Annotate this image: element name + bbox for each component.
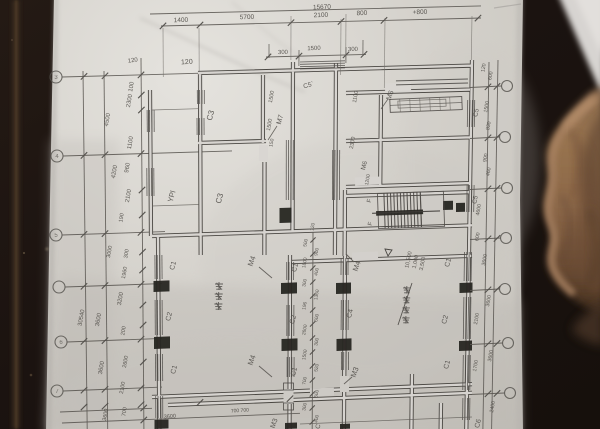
- window hatch right wall lower: [463, 252, 465, 281]
- paper sheet: [46, 0, 523, 429]
- axis row line right 1: [470, 86, 502, 88]
- paper top-right corner fold: [494, 4, 521, 8]
- axis row line left 5: [67, 338, 162, 342]
- paper soft shading lower-left & bottom: [46, 280, 521, 429]
- axis bubble right 5: [500, 284, 511, 295]
- axis row line right 3: [470, 188, 502, 190]
- window hatch right-mid wall: [340, 258, 342, 275]
- dim line top row B: [161, 18, 481, 26]
- door opening M6 mid: [355, 177, 381, 186]
- dim line top row A (15670 overall): [150, 6, 481, 14]
- window C5 right wall upper: [466, 100, 468, 127]
- svg-text:1500: 1500: [307, 46, 321, 52]
- bottom interior line: [300, 417, 472, 424]
- room label entertainment left (CJK scribbles): [215, 282, 223, 290]
- dim chain corridor: [311, 232, 314, 429]
- window hatch central wall: [285, 140, 287, 200]
- axis bubble left 3: [50, 229, 62, 241]
- axis bubble left 5: [55, 336, 67, 348]
- room top wall right wing: [396, 79, 468, 85]
- svg-text:2100: 2100: [314, 12, 329, 20]
- axis row line right 4: [470, 238, 501, 240]
- window block C2 left wall: [154, 336, 170, 349]
- svg-text:1400: 1400: [174, 17, 189, 25]
- paper mottle: [200, 140, 520, 380]
- window block right-mid wall a: [336, 283, 351, 295]
- knuckle creases: [572, 130, 579, 196]
- svg-text:3600: 3600: [164, 414, 177, 421]
- finger rim light along left edge: [548, 100, 594, 294]
- door opening M7: [259, 145, 268, 161]
- porch inner lines: [152, 109, 199, 110]
- window block right-mid wall b: [337, 338, 352, 351]
- svg-text:C5: C5: [471, 195, 479, 205]
- axis row line right 5: [470, 289, 500, 291]
- wood grain light streak left: [12, 0, 20, 429]
- window block left wall bottom: [155, 419, 169, 429]
- finger interior shading: [581, 110, 600, 238]
- axis row line left 4: [65, 284, 162, 287]
- door opening M4 lower-left: [310, 388, 334, 397]
- axis bubble left 2: [51, 150, 63, 162]
- window C3 upper: [196, 90, 198, 104]
- axis bubble right 3: [502, 183, 513, 194]
- svg-text:+800: +800: [413, 9, 428, 17]
- window strips porch wall: [146, 110, 148, 132]
- axis row line left 2: [63, 151, 232, 156]
- room label entertainment right (CJK scribbles): [403, 286, 411, 294]
- window block right-mid wall bottom: [340, 424, 350, 429]
- axis bubble left 4: [53, 281, 65, 293]
- axis row line left 1: [62, 73, 205, 77]
- window block central wall b: [282, 338, 298, 351]
- svg-text:5700: 5700: [240, 14, 255, 22]
- axis bubble left 6: [51, 385, 63, 397]
- dark pier beside stairs left: [280, 208, 292, 223]
- axis bubble right 2: [500, 132, 511, 143]
- extension lines to top dims: [198, 28, 200, 72]
- axis row line right 2: [470, 137, 500, 139]
- blurred light object top-right: [556, 0, 600, 100]
- axis bubble right 7: [505, 388, 516, 399]
- extension line V2: [104, 71, 108, 429]
- bed rectangle top-right room: [390, 97, 462, 113]
- dim chain line V3: [141, 58, 144, 429]
- svg-text:120: 120: [181, 59, 193, 67]
- axis row line right 6: [470, 343, 503, 345]
- dim chain right VB: [492, 60, 498, 429]
- svg-text:C5: C5: [472, 108, 480, 118]
- blurred finger right edge: [544, 86, 600, 314]
- paper edge shading: [46, 0, 58, 429]
- svg-text:15670: 15670: [313, 4, 332, 12]
- svg-text:800: 800: [356, 10, 367, 17]
- extension line V1: [83, 71, 87, 429]
- paper creases top-left: [140, 18, 305, 92]
- staircase: [371, 191, 444, 228]
- door opening central lower: [284, 389, 294, 404]
- axis row line right 7: [470, 393, 505, 395]
- svg-text:300: 300: [278, 50, 289, 56]
- door opening M3: [340, 376, 349, 392]
- dim chain right VA: [483, 62, 489, 429]
- axis bubble right 6: [503, 338, 514, 349]
- svg-text:300: 300: [348, 47, 359, 53]
- window block C1 left wall: [154, 280, 170, 292]
- window C5 top wall: [300, 61, 345, 62]
- window block central wall a: [281, 282, 297, 294]
- svg-text:700 700: 700 700: [231, 407, 250, 414]
- axis row line left 6: [63, 387, 162, 391]
- window block C1 right wall lower: [459, 341, 472, 352]
- door opening M6 top: [385, 83, 411, 92]
- axis row line left 3: [62, 232, 165, 235]
- dark pier beside stairs right2: [456, 203, 465, 212]
- axis bubble left 1: [50, 71, 62, 83]
- window block C1 right wall: [460, 283, 473, 294]
- level mark triangle: [385, 249, 392, 256]
- door opening M4 right room: [352, 252, 378, 261]
- chain ticks V3: [138, 92, 144, 98]
- finger lower faint tail: [572, 300, 600, 346]
- dark pier beside stairs right: [443, 201, 453, 210]
- wood specks: [46, 248, 49, 251]
- bottom dim rows: [60, 408, 152, 412]
- window hatch left wall lower: [154, 255, 156, 279]
- axis bubble right 4: [501, 233, 512, 244]
- dim chain 300/1500/300: [266, 54, 366, 57]
- window C5 right wall mid: [466, 185, 468, 212]
- walls rendered: [150, 60, 472, 429]
- axis bubble right 1: [502, 81, 513, 92]
- window block central wall bottom: [285, 423, 297, 429]
